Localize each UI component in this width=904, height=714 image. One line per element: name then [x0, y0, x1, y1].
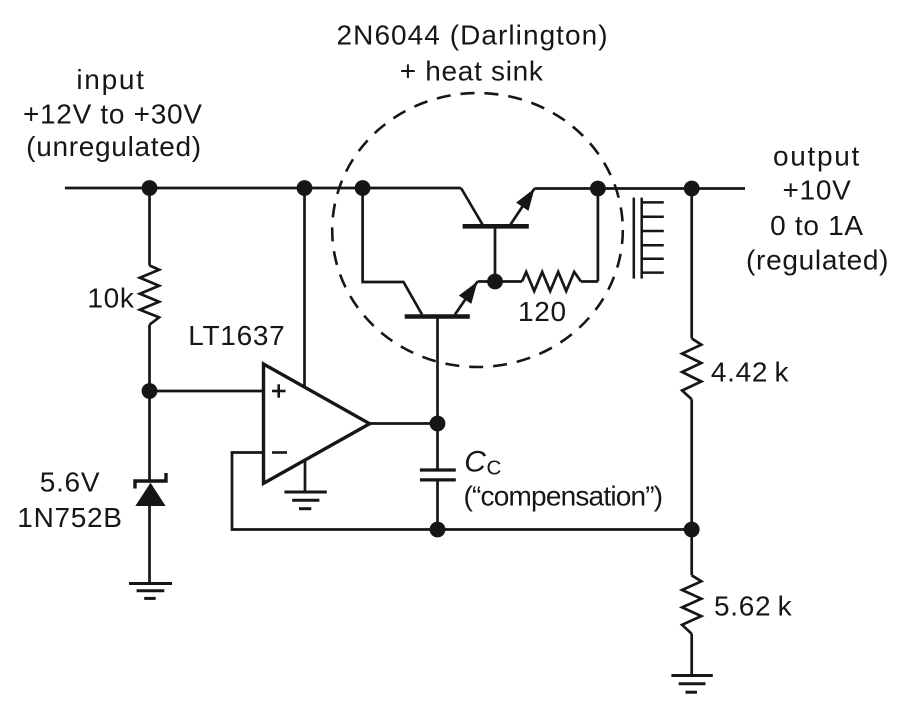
svg-text:C: C [464, 445, 486, 478]
svg-text:5.6V: 5.6V [40, 466, 100, 497]
svg-text:+12V to +30V: +12V to +30V [23, 99, 203, 130]
svg-text:120: 120 [518, 296, 567, 327]
svg-text:0 to 1A: 0 to 1A [770, 210, 864, 241]
svg-text:5.62 k: 5.62 k [714, 591, 793, 622]
svg-text:(regulated): (regulated) [746, 245, 889, 276]
svg-text:+10V: +10V [783, 174, 852, 205]
svg-text:10k: 10k [87, 282, 135, 313]
svg-text:4.42 k: 4.42 k [711, 357, 790, 388]
svg-text:2N6044 (Darlington): 2N6044 (Darlington) [337, 19, 609, 50]
svg-text:(unregulated): (unregulated) [26, 131, 202, 162]
svg-text:LT1637: LT1637 [188, 320, 285, 351]
svg-text:1N752B: 1N752B [17, 502, 122, 533]
svg-text:input: input [76, 64, 145, 95]
svg-text:(“compensation”): (“compensation”) [464, 481, 663, 512]
svg-text:+ heat sink: + heat sink [400, 55, 544, 86]
svg-text:output: output [773, 141, 861, 172]
svg-text:C: C [487, 457, 503, 480]
